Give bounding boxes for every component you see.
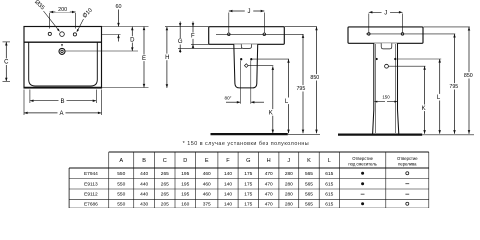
svg-text:615: 615	[325, 192, 333, 198]
svg-text:175: 175	[244, 171, 252, 177]
svg-text:150: 150	[382, 95, 390, 100]
svg-text:470: 470	[265, 181, 273, 187]
svg-text:550: 550	[117, 181, 125, 187]
svg-text:A: A	[59, 111, 63, 117]
svg-text:615: 615	[325, 171, 333, 177]
svg-text:175: 175	[244, 192, 252, 198]
svg-text:175: 175	[244, 201, 252, 207]
svg-text:J: J	[248, 9, 251, 15]
svg-text:140: 140	[224, 171, 232, 177]
svg-text:550: 550	[117, 171, 125, 177]
svg-text:D: D	[130, 37, 135, 43]
svg-text:175: 175	[244, 181, 252, 187]
svg-text:E: E	[205, 158, 209, 164]
svg-text:565: 565	[305, 171, 313, 177]
svg-text:K: K	[307, 158, 311, 164]
svg-text:195: 195	[181, 171, 189, 177]
svg-text:470: 470	[265, 192, 273, 198]
svg-text:под смеситель: под смеситель	[348, 162, 377, 167]
svg-text:460: 460	[203, 192, 211, 198]
svg-text:G: G	[246, 158, 250, 164]
svg-text:140: 140	[224, 181, 232, 187]
svg-text:440: 440	[140, 171, 148, 177]
svg-text:440: 440	[140, 181, 148, 187]
svg-text:265: 265	[161, 192, 169, 198]
svg-text:E7944: E7944	[84, 171, 98, 177]
svg-text:550: 550	[117, 201, 125, 207]
svg-text:195: 195	[181, 181, 189, 187]
svg-text:280: 280	[285, 171, 293, 177]
svg-text:205: 205	[161, 201, 169, 207]
svg-text:B: B	[142, 158, 146, 164]
svg-text:470: 470	[265, 171, 273, 177]
svg-text:D: D	[183, 158, 187, 164]
svg-text:460: 460	[203, 171, 211, 177]
svg-text:F: F	[191, 34, 195, 40]
svg-text:850: 850	[464, 73, 473, 79]
svg-text:перелива: перелива	[398, 162, 417, 167]
svg-text:615: 615	[325, 201, 333, 207]
svg-text:H: H	[267, 158, 271, 164]
svg-text:140: 140	[224, 192, 232, 198]
svg-text:Отверстие: Отверстие	[397, 156, 418, 161]
svg-text:J: J	[287, 158, 290, 164]
svg-text:160: 160	[181, 201, 189, 207]
svg-text:375: 375	[203, 201, 211, 207]
svg-text:565: 565	[305, 201, 313, 207]
svg-text:C: C	[163, 158, 167, 164]
svg-text:E7686: E7686	[84, 201, 98, 207]
svg-text:K: K	[269, 110, 273, 116]
svg-text:60: 60	[116, 4, 122, 10]
svg-text:460: 460	[203, 181, 211, 187]
svg-text:80°: 80°	[225, 95, 232, 100]
svg-text:795: 795	[296, 86, 305, 92]
svg-text:615: 615	[325, 181, 333, 187]
svg-text:565: 565	[305, 192, 313, 198]
svg-text:F: F	[226, 158, 230, 164]
svg-text:430: 430	[140, 201, 148, 207]
svg-text:850: 850	[310, 75, 319, 81]
svg-text:K: K	[422, 106, 426, 112]
svg-text:200: 200	[58, 7, 67, 13]
svg-text:B: B	[60, 99, 64, 105]
svg-text:E9113: E9113	[84, 181, 98, 187]
svg-text:C: C	[4, 60, 9, 66]
svg-text:J: J	[384, 11, 387, 17]
svg-text:H: H	[165, 55, 169, 61]
svg-text:440: 440	[140, 192, 148, 198]
svg-text:565: 565	[305, 181, 313, 187]
svg-text:G: G	[178, 39, 183, 45]
svg-text:265: 265	[161, 181, 169, 187]
svg-text:Отверстие: Отверстие	[352, 156, 373, 161]
svg-text:280: 280	[285, 201, 293, 207]
svg-text:795: 795	[449, 84, 458, 90]
svg-text:140: 140	[224, 201, 232, 207]
svg-text:A: A	[119, 158, 123, 164]
svg-text:550: 550	[117, 192, 125, 198]
svg-text:195: 195	[181, 192, 189, 198]
svg-text:280: 280	[285, 192, 293, 198]
svg-text:L: L	[328, 158, 331, 164]
svg-text:280: 280	[285, 181, 293, 187]
svg-text:E: E	[142, 56, 146, 62]
svg-text:* 150 в случае установки без п: * 150 в случае установки без полуколонны	[183, 141, 310, 147]
svg-text:265: 265	[161, 171, 169, 177]
svg-text:470: 470	[265, 201, 273, 207]
svg-text:E9112: E9112	[84, 192, 98, 198]
